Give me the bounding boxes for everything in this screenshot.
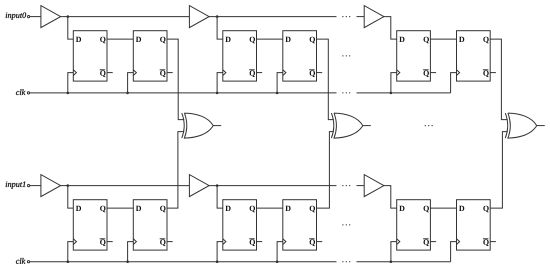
terminal input0 input port — [28, 16, 30, 18]
wire input0 to buffer B1 — [30, 16, 41, 18]
wire clk riser to FF3 — [217, 73, 223, 93]
node XOR row continuation (ellipsis dots) — [425, 125, 433, 126]
node top register chain continuation (ellipsis dots) — [342, 55, 350, 56]
node bottom register chain continuation (ellipsis dots) — [342, 224, 350, 225]
XOR gate X1 — [182, 113, 213, 138]
junction clk tap node FF1 — [67, 92, 70, 95]
junction rail tap node after B5 — [216, 184, 219, 187]
junction rail tap node after B2 — [216, 15, 219, 18]
label clk net name (bottom) — [16, 258, 25, 264]
wire clk riser to FF5 — [391, 73, 397, 93]
D flip-flop FF8 — [133, 200, 172, 250]
XOR gate X3 — [505, 113, 536, 138]
wire B6 output down to FF11 D input — [384, 186, 397, 209]
wire XOR X1 output stub — [213, 125, 221, 127]
D flip-flop FF5 — [397, 31, 436, 81]
terminal clk port (top) — [27, 92, 29, 94]
junction clk tap node FF7 — [67, 260, 70, 263]
buffer B4 — [41, 175, 61, 197]
wire clk line right segment (top) — [357, 92, 451, 94]
D flip-flop FF9 — [223, 200, 262, 250]
terminal clk port (bottom) — [27, 261, 29, 263]
wire FF3 Q to FF4 D — [257, 38, 283, 40]
D flip-flop FF10 — [283, 200, 322, 250]
D flip-flop FF12 — [457, 200, 496, 250]
junction clk tap node FF9 — [216, 260, 219, 263]
wire FF1 Q to FF2 D — [107, 38, 133, 40]
wire tap to FF1 D input — [68, 17, 74, 39]
wire clk riser to FF1 — [68, 73, 74, 93]
D flip-flop FF4 — [283, 31, 322, 81]
wire B5 output rail to ellipsis (bottom) — [209, 185, 336, 187]
wire XOR X3 output stub — [537, 125, 545, 127]
label clk net name (top) — [16, 89, 25, 95]
buffer B1 — [41, 6, 61, 28]
wire tap to FF3 D input — [217, 17, 223, 39]
node bottom rail continuation (ellipsis dots) — [342, 185, 350, 186]
wire tap to FF7 D input — [68, 186, 74, 209]
wire clk terminus riser to FF6 — [451, 73, 457, 93]
label input1 net name — [6, 181, 26, 188]
junction clk tap node FF10 — [276, 260, 279, 263]
junction clk tap node FF2 — [126, 92, 129, 95]
D flip-flop FF6 — [457, 31, 496, 81]
wire FF2 Q to XOR X1 input (top) — [167, 39, 184, 120]
wire clk riser to FF7 — [68, 242, 74, 262]
D flip-flop FF2 — [133, 31, 172, 81]
wire FF5 Q to FF6 D — [430, 38, 456, 40]
label input0 net name — [6, 12, 26, 19]
D flip-flop FF11 — [397, 200, 436, 250]
wire B1 output rail to B2 (top) — [61, 16, 190, 18]
wire clk riser to FF11 — [391, 242, 397, 262]
wire clk riser to FF4 — [277, 73, 283, 93]
node clk continuation (bottom) (ellipsis dots) — [342, 261, 350, 262]
wire FF7 Q to FF8 D — [107, 207, 133, 209]
buffer B6 — [364, 175, 384, 197]
junction clk tap node FF3 — [216, 92, 219, 95]
junction clk tap node FF5 — [390, 92, 393, 95]
junction clk tap node FF8 — [126, 260, 129, 263]
buffer B3 — [364, 6, 384, 28]
wire FF10 Q to XOR X2 input (bottom) — [317, 132, 334, 209]
wire clk line right segment (bottom) — [357, 261, 451, 263]
wire FF11 Q to FF12 D — [430, 207, 456, 209]
wire XOR X2 output stub — [363, 125, 371, 127]
wire rail from ellipsis to B3 — [357, 16, 365, 18]
wire tap to FF9 D input — [217, 186, 223, 209]
wire FF9 Q to FF10 D — [257, 207, 283, 209]
wire clk terminus riser to FF12 — [451, 242, 457, 262]
D flip-flop FF7 — [73, 200, 112, 250]
node clk continuation (top) (ellipsis dots) — [342, 92, 350, 93]
junction clk tap node FF11 — [390, 260, 393, 263]
wire B4 output rail to B5 (bottom) — [61, 185, 190, 187]
wire clk line left segment (top) — [30, 92, 337, 94]
wire clk riser to FF8 — [128, 242, 134, 262]
wire FF6 Q to XOR X3 input (top) — [490, 39, 508, 120]
wire FF4 Q to XOR X2 input (top) — [317, 39, 334, 120]
wire clk riser to FF9 — [217, 242, 223, 262]
wire clk riser to FF10 — [277, 242, 283, 262]
wire B3 output down to FF5 D input — [384, 17, 397, 39]
wire FF8 Q to XOR X1 input (bottom) — [167, 132, 184, 209]
wire B2 output rail to ellipsis (top) — [209, 16, 336, 18]
terminal input1 input port — [28, 185, 30, 187]
junction rail tap node after B4 — [67, 184, 70, 187]
wire clk line left segment (bottom) — [30, 261, 337, 263]
junction clk tap node FF4 — [276, 92, 279, 95]
D flip-flop FF1 — [73, 31, 112, 81]
wire rail from ellipsis to B6 — [357, 185, 365, 187]
wire FF12 Q to XOR X3 input (bottom) — [490, 132, 508, 209]
D flip-flop FF3 — [223, 31, 262, 81]
buffer B2 — [189, 6, 209, 28]
junction rail tap node after B1 — [67, 15, 70, 18]
wire input1 to buffer B4 — [30, 185, 41, 187]
wire clk riser to FF2 — [128, 73, 134, 93]
XOR gate X2 — [331, 113, 362, 138]
buffer B5 — [189, 175, 209, 197]
node top rail continuation (ellipsis dots) — [342, 16, 350, 17]
